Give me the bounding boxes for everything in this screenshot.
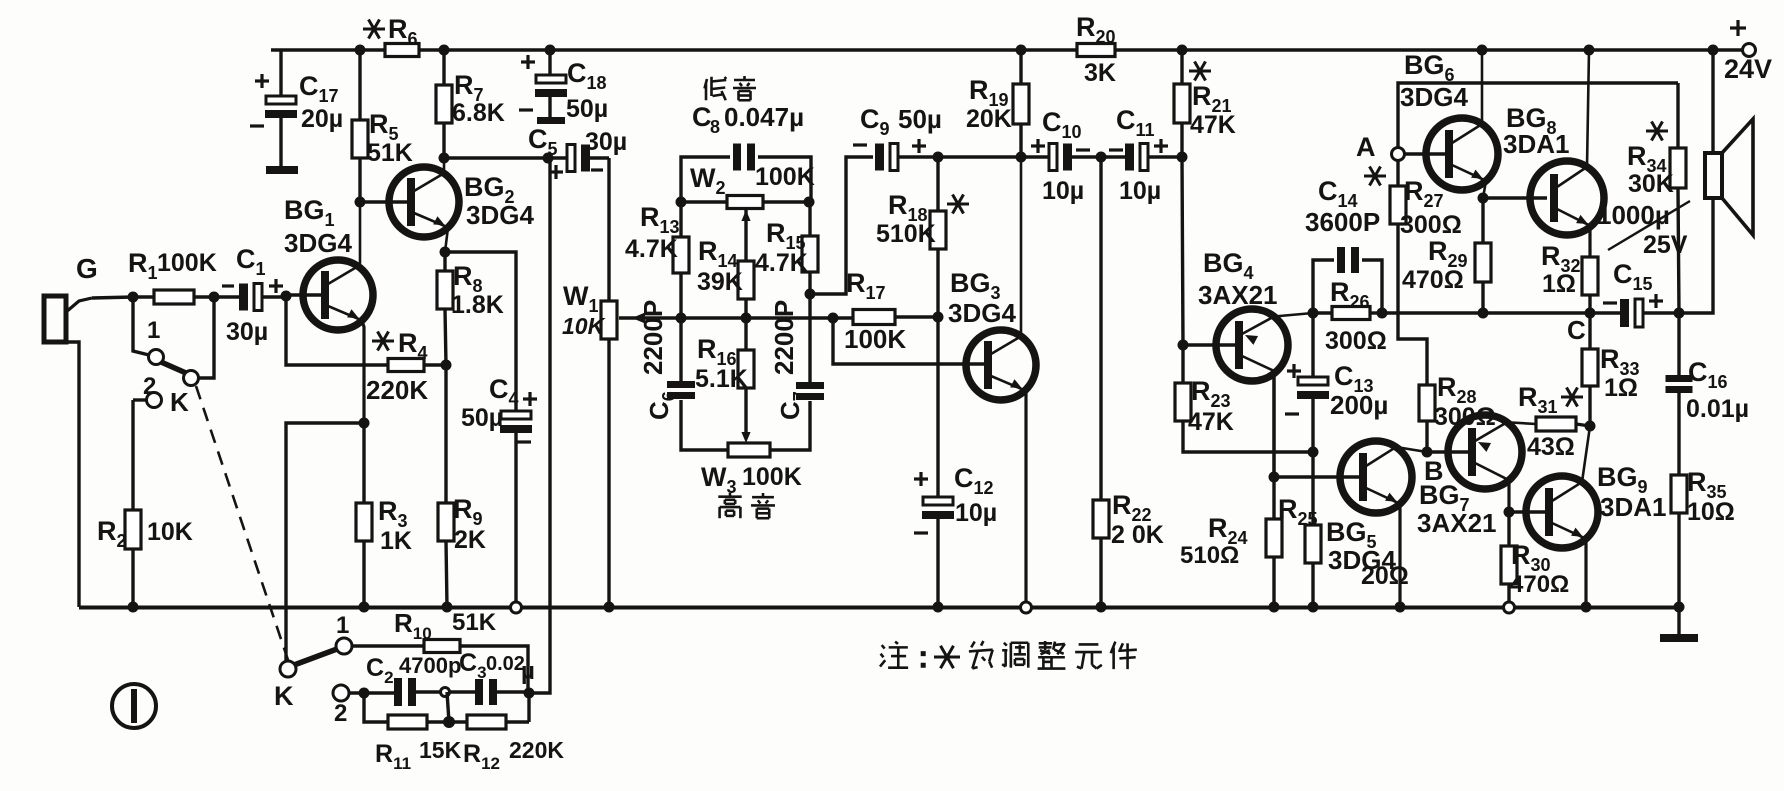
resistor R15 [755, 202, 818, 294]
svg-text:2: 2 [334, 700, 347, 727]
svg-text:30µ: 30µ [226, 318, 268, 346]
wire +24V top supply rail [271, 48, 1749, 51]
node W1 ground [604, 602, 615, 613]
resistor R24 [1180, 477, 1282, 607]
svg-text:3600P: 3600P [1305, 207, 1380, 237]
resistor R32 [1541, 241, 1598, 313]
svg-text:510Ω: 510Ω [1180, 542, 1239, 569]
capacitor C6 [638, 300, 695, 420]
transistor BG6 [1400, 50, 1498, 198]
potentiometer W3 [681, 400, 810, 497]
svg-text:µ: µ [521, 658, 535, 685]
text bass label [705, 76, 757, 100]
wire feedback from C5 node [529, 158, 550, 693]
transistor BG1 [284, 195, 373, 423]
node C10 C11 midpoint [1096, 152, 1107, 163]
node R17 right node [933, 312, 944, 323]
wire jack tip hook [66, 297, 133, 312]
switch K contact 2 [133, 373, 189, 417]
resistor R21 [1174, 50, 1236, 157]
resistor R33 [1582, 313, 1640, 426]
wire BG1 emitter to switch arm [286, 423, 364, 661]
resistor R34 [1627, 83, 1686, 313]
svg-text:3K: 3K [1084, 59, 1116, 87]
resistor R28 [1398, 313, 1496, 452]
connector G input jack [44, 253, 98, 342]
node BG2 collector node [439, 153, 450, 164]
capacitor C5 [528, 124, 627, 179]
node C3 right node [524, 688, 535, 699]
svg-text:47K: 47K [1190, 111, 1236, 139]
svg-text:1: 1 [336, 612, 349, 639]
svg-text:4.7K: 4.7K [755, 249, 808, 277]
resistor R20 [1076, 12, 1116, 87]
node BG5 base node [1269, 472, 1280, 483]
node BG1 base node [281, 291, 292, 302]
wire mechanical link dashed [196, 386, 288, 660]
svg-text:0.02: 0.02 [486, 653, 525, 675]
ground main ground symbol [1660, 607, 1698, 642]
node BG2 emitter node [440, 247, 451, 258]
svg-text:100K: 100K [157, 249, 217, 277]
node R1 right node [209, 292, 220, 303]
svg-text:2 0K: 2 0K [1111, 521, 1164, 549]
svg-text:39K: 39K [697, 268, 743, 296]
resistor R1 [128, 248, 217, 304]
resistor R29 [1402, 198, 1491, 313]
wire output mid rail [1382, 311, 1679, 314]
capacitor C8 [681, 102, 811, 202]
resistor R6 [363, 14, 419, 57]
node circled-1 mark [112, 684, 156, 728]
node C9 node [933, 152, 944, 163]
potentiometer W3 wiper [741, 432, 750, 443]
node rail node speaker [1708, 45, 1719, 56]
svg-text:1K: 1K [380, 527, 412, 555]
node C12 ground [933, 602, 944, 613]
svg-text:K: K [170, 387, 189, 417]
node R31 right node [1585, 421, 1596, 432]
node R11 R12 midpoint [443, 692, 455, 728]
svg-text:51K: 51K [367, 139, 413, 167]
svg-text:50µ: 50µ [898, 104, 942, 134]
svg-text:2K: 2K [454, 526, 486, 554]
wire R17 to BG3 base [833, 318, 985, 364]
svg-text:50µ: 50µ [461, 404, 503, 432]
capacitor C3 [449, 649, 535, 705]
capacitor C9 [810, 104, 1021, 294]
svg-text:C: C [1567, 315, 1586, 345]
capacitor C15 [1603, 259, 1663, 327]
resistor R11 [364, 693, 462, 773]
wire BG4 collector to BG5 base [1272, 375, 1275, 477]
node BG4 base node [1178, 340, 1189, 351]
svg-text:4.7K: 4.7K [625, 235, 678, 263]
node A terminal [1356, 132, 1405, 162]
terminal +24V [1724, 20, 1772, 84]
svg-text:0.047µ: 0.047µ [724, 102, 804, 132]
resistor R4 [286, 296, 446, 405]
node R14 node [741, 313, 752, 324]
node rail node BG8 [1584, 45, 1595, 56]
ground C17 ground bar [266, 166, 298, 174]
node C output node [1567, 308, 1596, 346]
node BG3 emitter ground terminal [1021, 602, 1032, 613]
transistor BG3 [948, 157, 1036, 602]
resistor R25 [1278, 452, 1409, 607]
svg-text:8: 8 [710, 117, 720, 137]
capacitor C17 [250, 50, 343, 166]
svg-text:20K: 20K [966, 105, 1012, 133]
resistor R12 [449, 693, 564, 773]
svg-text:2: 2 [143, 373, 156, 400]
svg-text:470Ω: 470Ω [1402, 266, 1464, 294]
node BG1 emitter node [359, 418, 370, 429]
switch K arm upper [161, 362, 199, 386]
node rail node BG6 [1477, 45, 1488, 56]
svg-text:4700p: 4700p [399, 653, 461, 678]
node R22 ground [1096, 602, 1107, 613]
svg-text:A: A [1356, 132, 1376, 162]
resistor R9 [438, 365, 486, 607]
resistor R10 [352, 608, 528, 693]
svg-text:3DA1: 3DA1 [1600, 492, 1666, 522]
resistor R7 [436, 50, 505, 158]
ground C18 ground bar [537, 117, 565, 124]
resistor R23 [1175, 345, 1313, 452]
svg-text:3DA1: 3DA1 [1503, 129, 1569, 159]
svg-text:1Ω: 1Ω [1604, 374, 1638, 402]
svg-text:2200P: 2200P [769, 300, 799, 375]
capacitor C10 [1021, 107, 1182, 205]
wire BG2 collector to C5 [444, 156, 548, 159]
text treble label [718, 493, 775, 518]
wire node A bootstrap line [1398, 83, 1678, 148]
svg-text:3AX21: 3AX21 [1198, 280, 1278, 310]
node R9 ground [442, 602, 453, 613]
wire jack sleeve to ground [66, 342, 79, 607]
resistor R14 [697, 236, 754, 318]
node rail node R19 [1016, 45, 1027, 56]
node rail node R6 right [439, 45, 450, 56]
node C15 right node [1674, 308, 1685, 319]
svg-text:5.1K: 5.1K [695, 365, 748, 393]
resistor R13 [625, 202, 689, 318]
capacitor C11 [1109, 105, 1168, 205]
svg-text:24V: 24V [1724, 54, 1772, 84]
node B node [1422, 447, 1444, 487]
svg-text:2200P: 2200P [638, 300, 668, 375]
capacitor C16 [1666, 313, 1750, 475]
capacitor C14 [1305, 166, 1386, 313]
node R3 ground [359, 602, 370, 613]
switch K2 arm [274, 649, 337, 711]
node R17 left node [828, 313, 839, 324]
wire ground bus rail [79, 606, 1679, 610]
svg-text:50µ: 50µ [566, 95, 608, 123]
svg-text:1000µ: 1000µ [1597, 200, 1670, 230]
node BG4 emitter node [1308, 308, 1319, 319]
node rail node R6 left [355, 45, 366, 56]
svg-text:30K: 30K [1628, 170, 1674, 198]
text C15 value annotation [1597, 200, 1690, 259]
svg-text:15K: 15K [419, 737, 462, 763]
svg-text:43Ω: 43Ω [1527, 433, 1575, 461]
wire tone center line [681, 316, 833, 319]
svg-text:100K: 100K [755, 163, 815, 191]
svg-text:10µ: 10µ [1119, 177, 1161, 205]
transistor BG5 [1274, 441, 1427, 607]
node R2 ground [128, 602, 139, 613]
svg-text:220K: 220K [509, 737, 564, 763]
potentiometer W1 [562, 158, 617, 607]
node R13 node [676, 313, 687, 324]
svg-text:3DG4: 3DG4 [1400, 82, 1468, 112]
svg-text:47K: 47K [1188, 408, 1234, 436]
wire C11 node to BG4 base [1182, 157, 1183, 345]
svg-text:10Ω: 10Ω [1687, 498, 1735, 526]
svg-text:510K: 510K [876, 220, 936, 248]
svg-text:20µ: 20µ [301, 105, 343, 133]
resistor R17 [833, 268, 938, 354]
resistor R5 [352, 50, 413, 202]
node C4 ground terminal [511, 602, 522, 613]
svg-text:3DG4: 3DG4 [466, 200, 534, 230]
node C5 left node [543, 153, 554, 164]
svg-text:1Ω: 1Ω [1542, 270, 1576, 298]
transistor BG7 [1417, 415, 1536, 538]
node C2 C3 midpoint [441, 688, 450, 697]
node C11 right node [1177, 152, 1188, 163]
svg-text:300Ω: 300Ω [1400, 211, 1462, 239]
wire switch to R1 right [198, 297, 214, 378]
resistor R30 [1501, 512, 1569, 602]
svg-text:30µ: 30µ [585, 128, 627, 156]
node R25 ground [1308, 602, 1319, 613]
svg-text:100K: 100K [844, 324, 906, 354]
potentiometer W2 [676, 163, 815, 209]
svg-text:10K: 10K [147, 518, 193, 546]
transistor BG2 [360, 158, 534, 252]
speaker [1679, 50, 1753, 313]
switch K2 contact 2 [333, 685, 349, 727]
svg-text:100K: 100K [742, 463, 802, 491]
capacitor C12 [914, 317, 997, 607]
capacitor C1 [214, 244, 286, 346]
resistor R2 [97, 400, 193, 607]
node R29 bottom node [1478, 308, 1489, 319]
node R19 bottom node [1016, 152, 1027, 163]
transistor BG9 [1509, 426, 1666, 607]
node BG2 base node [355, 197, 366, 208]
node R26 right node [1377, 308, 1388, 319]
svg-text:10K: 10K [562, 313, 606, 339]
node R4 right node [441, 360, 452, 371]
svg-text:1: 1 [147, 317, 160, 344]
svg-text:10µ: 10µ [955, 499, 997, 527]
resistor R22 [1093, 157, 1164, 607]
node R30 ground terminal [1504, 602, 1515, 613]
svg-text:3AX21: 3AX21 [1417, 508, 1497, 538]
svg-text:G: G [76, 253, 98, 284]
svg-text:51K: 51K [452, 609, 497, 636]
resistor R27 [1390, 160, 1462, 313]
svg-text:0.01µ: 0.01µ [1686, 395, 1749, 423]
svg-text:300Ω: 300Ω [1325, 327, 1387, 355]
svg-text:3DG4: 3DG4 [284, 228, 352, 258]
node BG9 emitter ground [1581, 602, 1592, 613]
node rail node R20 right [1177, 45, 1188, 56]
svg-text:1.8K: 1.8K [451, 291, 504, 319]
svg-text:220K: 220K [366, 375, 428, 405]
resistor R8 [437, 252, 504, 365]
resistor R26 [1313, 277, 1387, 355]
switch K2 contact 1 [336, 612, 352, 654]
capacitor C13 [1285, 313, 1388, 452]
node BG5 emitter ground [1395, 602, 1406, 613]
svg-text:3DG4: 3DG4 [1328, 545, 1396, 575]
wire BG6 emitter to BG8 base [1483, 196, 1547, 199]
node rail node C18 [545, 45, 556, 56]
resistor R31 [1518, 382, 1590, 461]
node switch contact2 node [359, 688, 370, 699]
node ground node right [1674, 602, 1685, 613]
node R15 bottom node [805, 289, 816, 300]
switch K contact 1 [133, 297, 164, 365]
node R24 ground [1269, 602, 1280, 613]
resistor R3 [356, 423, 412, 607]
svg-text:200µ: 200µ [1330, 390, 1388, 420]
node BG6 emitter node [1478, 193, 1489, 204]
svg-text:470Ω: 470Ω [1510, 571, 1569, 598]
capacitor C18 [519, 50, 608, 123]
node input node [128, 292, 139, 303]
resistor R19 [966, 50, 1029, 157]
resistor R35 [1671, 467, 1735, 607]
svg-text:C: C [692, 102, 712, 132]
node BG7 collector node [1504, 507, 1515, 518]
potentiometer W2 wiper [741, 210, 750, 261]
capacitor C2 [349, 653, 461, 706]
node C13 bottom node [1308, 447, 1319, 458]
capacitor C7 [769, 294, 824, 420]
resistor R18 [876, 157, 969, 317]
svg-text:K: K [274, 681, 294, 711]
capacitor C4 [445, 252, 537, 602]
svg-text:10µ: 10µ [1042, 177, 1084, 205]
wire W1 wiper [619, 313, 681, 324]
text adjust note [880, 641, 1137, 669]
transistor BG4 [1183, 248, 1313, 477]
svg-text:6.8K: 6.8K [452, 99, 505, 127]
resistor R16 [695, 318, 754, 437]
transistor BG8 [1503, 50, 1604, 257]
svg-text:25V: 25V [1643, 231, 1688, 259]
svg-text:3DG4: 3DG4 [948, 298, 1016, 328]
